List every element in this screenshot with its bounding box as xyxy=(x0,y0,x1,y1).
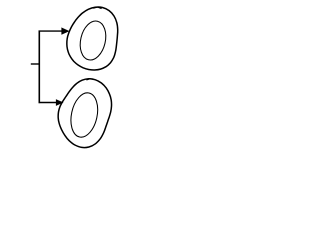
node: top torus outer contour xyxy=(67,7,118,70)
wire: top branch horizontal xyxy=(39,30,63,32)
node: bottom torus inner hole xyxy=(67,90,101,139)
wire: left input tick xyxy=(31,63,40,65)
arrowhead: bottom branch xyxy=(56,100,63,106)
wire: vertical fork line xyxy=(38,31,40,104)
node: top torus inner hole xyxy=(77,18,110,62)
pen-start cusp on top torus xyxy=(93,7,101,9)
wire: bottom branch horizontal xyxy=(39,102,57,104)
arrowhead: top branch xyxy=(62,28,69,34)
pen-start cusp on bottom torus xyxy=(86,79,93,80)
node: bottom torus outer contour xyxy=(58,79,111,148)
